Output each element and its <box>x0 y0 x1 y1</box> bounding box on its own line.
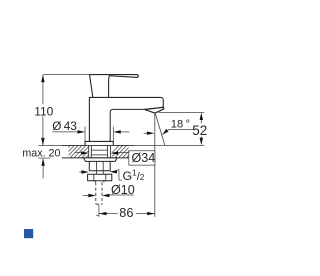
tail angle left <box>144 132 148 134</box>
deck hatch left <box>58 145 98 158</box>
dimension 52 vertical line <box>200 120 202 139</box>
arrow max20 up <box>41 158 44 166</box>
dimension 86 line left part <box>99 213 118 215</box>
extension line deck top right <box>135 144 205 146</box>
wire: extension line from lever top to 110 dimension <box>43 74 90 76</box>
lever handle <box>90 75 139 98</box>
svg-text:G1/2: G1/2 <box>123 169 145 183</box>
deck bottom line <box>62 157 129 159</box>
arrow diameter10 right pointing left <box>102 194 110 197</box>
thread line right <box>102 161 104 174</box>
spout underside <box>110 107 163 141</box>
deck top line <box>62 144 135 146</box>
escutcheon sleeve right <box>109 161 111 170</box>
arrow 110 bottom <box>41 138 44 146</box>
arrow diameter10 left pointing right <box>88 194 96 197</box>
svg-text:52: 52 <box>192 123 207 138</box>
tail diameter43 right <box>120 131 129 133</box>
thread line left <box>95 161 97 174</box>
svg-text:Ø34: Ø34 <box>132 151 156 165</box>
deck hole edge left <box>88 145 90 157</box>
threaded shank in deck left <box>90 145 92 157</box>
extension line spout outlet right <box>159 111 205 113</box>
washer below deck <box>84 158 118 162</box>
leader 18deg <box>162 129 193 135</box>
escutcheon sleeve left <box>89 161 110 170</box>
extension line flange right <box>112 127 114 141</box>
arrow 52 top <box>200 113 203 121</box>
svg-text:Ø10: Ø10 <box>111 183 135 197</box>
deck hatch right <box>107 145 139 158</box>
deck hole edge right <box>110 145 112 157</box>
extension line flange left <box>84 127 86 141</box>
extension tick at deck bottom left <box>38 157 50 159</box>
label diameter 34 box <box>129 151 155 165</box>
supply pipe dashed left <box>95 182 97 204</box>
shank band upper <box>91 149 107 151</box>
tail diameter34 left <box>74 152 81 154</box>
arrow diameter34 left pointing right at hole <box>81 151 89 154</box>
supply pipe dashed right <box>101 182 103 204</box>
dimension 86 line right part <box>136 213 155 215</box>
angle reference vertical line from outlet down to 86 dim <box>154 113 156 217</box>
supply pipe bottom cap <box>96 203 102 205</box>
tail G12 left <box>79 171 82 173</box>
arrow diameter43 left <box>78 130 86 133</box>
svg-text:86: 86 <box>119 205 133 220</box>
small step tick at 86 left <box>96 214 99 216</box>
arrow G12 left pointing right <box>81 170 89 173</box>
centerline tick above 86 <box>98 205 100 217</box>
arrow angle right <box>162 129 169 135</box>
blue brand square <box>24 229 33 238</box>
arrow 52 bottom <box>200 138 203 146</box>
arrow G12 right pointing left <box>110 170 118 173</box>
max 20 lower dimension line <box>42 159 44 178</box>
arrow 86 left <box>99 212 107 215</box>
dimension 110 vertical line <box>42 75 44 146</box>
svg-text:max. 20: max. 20 <box>22 147 60 159</box>
nut facet right <box>105 174 107 181</box>
base flange <box>85 141 113 145</box>
leader diameter 34 <box>117 152 129 154</box>
hex nut <box>88 174 112 181</box>
threaded shank in deck right <box>107 145 109 157</box>
aerator wedge <box>145 107 164 113</box>
svg-text:Ø 43: Ø 43 <box>52 119 77 133</box>
arrow 110 top <box>41 75 44 83</box>
shank band lower <box>91 154 107 156</box>
underline of diameter 43 <box>53 131 79 133</box>
leader G12 <box>116 170 122 180</box>
arrow diameter43 right <box>113 130 121 133</box>
tail diameter10 left <box>83 195 89 197</box>
shank stub below nut <box>95 181 104 183</box>
angle slant line 18 deg <box>155 113 165 145</box>
nut facet left <box>93 174 95 181</box>
faucet body and spout outline <box>89 97 163 141</box>
arrow angle left <box>147 132 155 135</box>
arrow diameter34 right pointing left at hole <box>111 151 119 154</box>
arrow 86 right <box>147 212 155 215</box>
svg-text:110: 110 <box>34 104 53 118</box>
svg-text:18 °: 18 ° <box>171 119 190 131</box>
underline diameter10 <box>109 194 134 196</box>
